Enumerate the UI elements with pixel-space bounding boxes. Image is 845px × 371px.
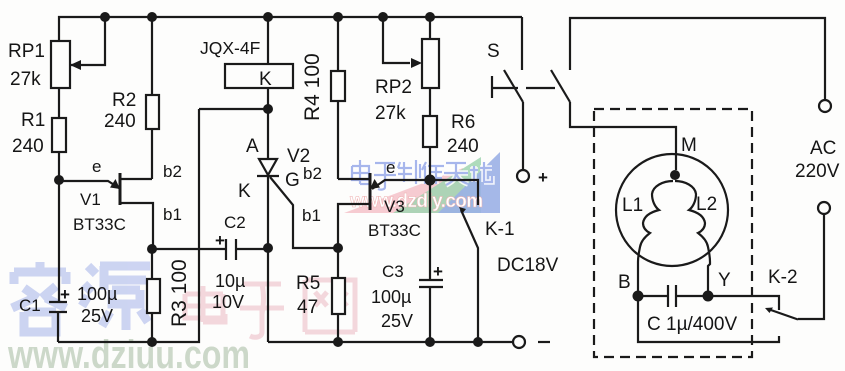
node b1 V1 <box>147 244 157 254</box>
node B <box>633 291 644 302</box>
node e3 <box>425 175 436 186</box>
svg-text:C2: C2 <box>224 213 246 232</box>
svg-text:10µ: 10µ <box>215 271 245 291</box>
wire R1 to node e1 <box>58 152 60 180</box>
top supply rail <box>59 17 522 41</box>
resistor R4 <box>331 71 345 101</box>
switch S blade right <box>551 70 570 102</box>
svg-text:+: + <box>538 168 548 187</box>
wire B loop <box>638 296 779 342</box>
transistor V3 b1 lead <box>338 204 370 248</box>
watermark middle triangles <box>344 152 500 213</box>
relay contact K-2 blade <box>768 309 798 320</box>
wire RP1 to R1 <box>58 88 60 118</box>
svg-text:AC: AC <box>810 138 836 159</box>
motor circle <box>616 154 728 266</box>
svg-text:R6: R6 <box>451 112 475 133</box>
resistor R6 <box>423 116 437 147</box>
svg-text:27k: 27k <box>10 69 41 90</box>
potentiometer RP2 wiper <box>383 17 410 63</box>
node rail-RP2 <box>425 12 435 22</box>
terminal plus wire <box>522 102 524 170</box>
transistor V1 emitter <box>59 181 119 188</box>
arrow K-1 blade tip <box>459 207 466 214</box>
resistor R2 <box>146 95 159 129</box>
node rail R3 <box>147 337 157 347</box>
node e1 <box>54 175 64 185</box>
transistor V1 bar <box>119 173 122 205</box>
capacitor C3 <box>419 279 443 281</box>
svg-text:25V: 25V <box>381 311 413 331</box>
svg-text:JQX-4F: JQX-4F <box>200 38 260 58</box>
svg-text:R1: R1 <box>21 110 45 131</box>
wire S left pole feed <box>521 17 523 70</box>
svg-text:C3: C3 <box>382 262 404 281</box>
arrow K-2 blade tip <box>765 308 773 314</box>
svg-text:DC18V: DC18V <box>497 255 559 276</box>
wire R2 to b2 <box>151 129 153 179</box>
wire V2 cathode to bottom rail <box>267 248 269 342</box>
node rail-RP2 wiper <box>378 12 388 22</box>
arrow RP1 wiper <box>70 60 81 70</box>
capacitor C2 <box>225 239 227 260</box>
node V3 b1 <box>333 243 343 253</box>
capacitor C1 <box>49 301 67 303</box>
svg-text:V3: V3 <box>384 197 405 216</box>
svg-text:240: 240 <box>104 111 136 132</box>
svg-text:L1: L1 <box>622 195 643 216</box>
wire RP2 to R6 <box>429 88 431 116</box>
transistor V3 emitter <box>372 180 431 189</box>
node rail R5 <box>333 337 343 347</box>
AC terminal top circle <box>819 100 831 112</box>
wire S right pole to motor M <box>570 102 676 170</box>
capacitor C motor <box>667 285 669 307</box>
容 <box>12 262 66 332</box>
svg-text:b1: b1 <box>302 206 321 225</box>
terminal minus circle <box>513 336 525 348</box>
svg-text:G: G <box>285 170 300 191</box>
wire R4 to b2 of V3 <box>337 101 339 179</box>
resistor R3 <box>147 279 160 313</box>
svg-text:e: e <box>92 157 101 176</box>
AC terminal bottom circle <box>818 202 830 214</box>
node rail-R4 <box>333 12 343 22</box>
svg-text:RP2: RP2 <box>375 77 412 98</box>
relay coil K JQX-4F <box>267 17 269 64</box>
svg-text:R2: R2 <box>112 90 136 111</box>
svg-text:240: 240 <box>12 136 44 157</box>
watermark left blue chars 容源 <box>12 262 150 332</box>
thyristor V2 gate <box>270 177 338 248</box>
resistor R5 <box>332 278 345 314</box>
svg-text:R5: R5 <box>296 273 320 294</box>
node V2 cathode <box>263 243 273 253</box>
relay contact K-2 fixed from Y <box>708 296 779 310</box>
wire relay node left <box>199 108 268 110</box>
wiper RP1 <box>70 17 105 65</box>
wire b1 node to C2 <box>152 248 226 250</box>
AC feed wire <box>570 18 825 100</box>
svg-text:K-2: K-2 <box>768 267 798 288</box>
thyristor V2 anode wire <box>267 109 269 159</box>
watermark middle blue chars 电子制作天地 <box>352 160 492 190</box>
transistor V1 b2 lead <box>120 178 152 180</box>
svg-text:www.dziuu.com: www.dziuu.com <box>7 333 250 371</box>
svg-text:b2: b2 <box>303 164 322 183</box>
bottom right rail <box>268 341 513 343</box>
thyristor V2 cathode wire <box>267 176 269 248</box>
switch S linkage <box>491 76 493 98</box>
transistor V3 b2 lead <box>338 178 370 180</box>
wire R4 drop <box>337 17 339 71</box>
svg-text:240: 240 <box>447 136 479 157</box>
网 <box>305 280 355 332</box>
wire R6 to node <box>429 147 431 180</box>
源 <box>82 266 150 330</box>
arrow V1 emitter <box>110 179 120 189</box>
svg-text:b2: b2 <box>163 162 182 181</box>
wire AC bottom to K-2 <box>798 214 824 319</box>
wire b1 node to R5 <box>337 248 339 278</box>
motor windings L1 L2 <box>638 181 673 296</box>
thyristor V2 triangle <box>259 159 277 175</box>
transistor V1 b1 lead <box>120 203 153 249</box>
svg-text:Y: Y <box>718 270 731 291</box>
bottom left rail <box>58 109 199 342</box>
wire b1 node to R3 <box>151 249 153 279</box>
svg-text:V1: V1 <box>80 190 101 209</box>
wire R5 to bottom rail <box>337 314 339 342</box>
svg-text:C1: C1 <box>19 296 41 315</box>
svg-text:25V: 25V <box>81 306 113 326</box>
resistor R1 <box>52 118 66 152</box>
switch S blade left <box>504 70 523 102</box>
plus signs <box>60 168 548 304</box>
svg-text:B: B <box>618 272 631 293</box>
node rail-K <box>263 12 273 22</box>
svg-text:R3 100: R3 100 <box>168 259 191 327</box>
svg-text:+: + <box>433 262 443 281</box>
relay contact K-1 fixed <box>431 180 478 205</box>
wire R3 to bottom rail <box>151 313 153 342</box>
svg-text:+: + <box>215 231 225 250</box>
svg-text:100µ: 100µ <box>77 284 117 304</box>
arrowheads <box>70 58 773 313</box>
svg-text:10V: 10V <box>212 292 244 312</box>
svg-text:L2: L2 <box>696 194 717 215</box>
svg-text:A: A <box>246 136 259 157</box>
node rail C3 <box>425 337 435 347</box>
svg-text:27k: 27k <box>375 103 406 124</box>
node Y <box>703 291 714 302</box>
thyristor V2 cathode bar <box>257 175 279 177</box>
wire node to C3 <box>429 180 431 280</box>
svg-text:K-1: K-1 <box>485 219 515 240</box>
relay contact K-1 blade <box>461 210 478 342</box>
svg-text:RP1: RP1 <box>8 41 45 62</box>
arrow V3 emitter <box>370 179 380 189</box>
arrow RP2 wiper <box>411 58 422 68</box>
node relay-V2 <box>263 104 273 114</box>
svg-text:100µ: 100µ <box>371 287 411 307</box>
svg-text:C 1µ/400V: C 1µ/400V <box>647 314 737 335</box>
wire R2 drop <box>151 17 153 95</box>
transistor V3 bar <box>369 173 372 210</box>
potentiometer RP1 <box>51 41 70 88</box>
node rail-R2 <box>147 12 157 22</box>
电 <box>185 286 225 322</box>
svg-text:b1: b1 <box>163 205 182 224</box>
terminal plus circle <box>517 170 529 182</box>
wire node to C1 <box>58 180 60 302</box>
svg-text:BT33C: BT33C <box>73 215 126 234</box>
node motor M <box>670 170 680 180</box>
svg-text:47: 47 <box>297 297 318 318</box>
minus sign <box>538 341 550 343</box>
svg-text:BT33C: BT33C <box>368 221 421 240</box>
svg-text:K: K <box>238 181 251 202</box>
potentiometer RP2 <box>429 17 431 39</box>
node rail-RP1 wiper <box>100 12 110 22</box>
svg-text:220V: 220V <box>795 161 840 182</box>
svg-text:K: K <box>259 69 272 90</box>
svg-text:M: M <box>681 135 697 156</box>
watermark pink chars 电子网 <box>185 280 355 337</box>
svg-text:+: + <box>60 285 70 304</box>
dashed motor box <box>594 109 752 357</box>
svg-text:S: S <box>487 41 500 62</box>
svg-text:R4 100: R4 100 <box>301 53 324 121</box>
子 <box>240 284 284 337</box>
node rail K-1 <box>473 337 483 347</box>
svg-text:e: e <box>386 158 395 177</box>
